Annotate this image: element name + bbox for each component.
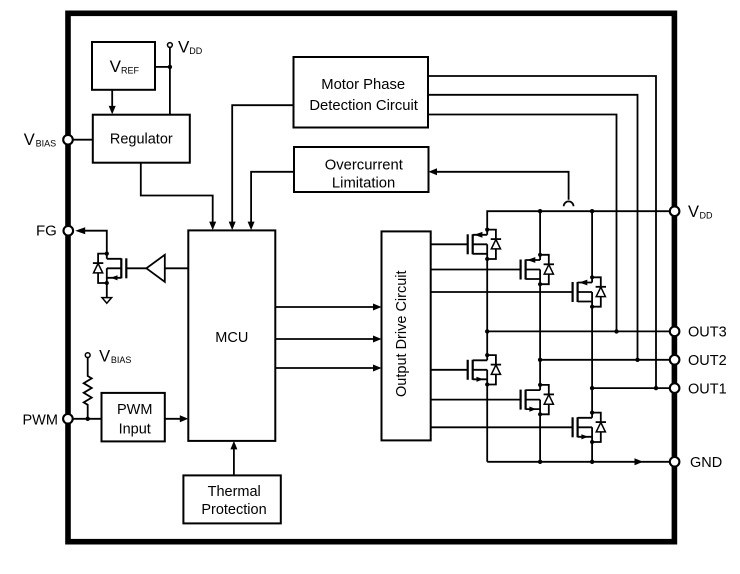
svg-text:MCU: MCU: [215, 330, 248, 346]
pin VDD: [670, 203, 713, 221]
svg-text:GND: GND: [690, 455, 722, 471]
wire gate drive to Q1: [431, 243, 468, 245]
pin VDD (internal stub): [168, 37, 203, 56]
node junction VREF/VDD: [168, 65, 172, 69]
wire PWM Input to MCU (arrow): [165, 415, 189, 422]
svg-text:Protection: Protection: [201, 502, 266, 518]
node junction Q3 drain on VDD rail: [590, 209, 594, 213]
block Overcurrent Limitation: [294, 147, 429, 192]
svg-text:V: V: [110, 57, 122, 76]
wire Motor Phase Detection feedback from OUT2: [428, 95, 638, 360]
node junction Q2 drain on VDD rail: [538, 209, 542, 213]
resistor R1 (PWM pull-up): [84, 358, 92, 420]
svg-text:V: V: [688, 203, 699, 221]
wire Motor Phase Detection feedback from OUT3: [428, 115, 617, 332]
svg-text:OUT3: OUT3: [688, 325, 727, 341]
svg-text:BIAS: BIAS: [111, 355, 132, 365]
chip boundary border: [68, 13, 674, 541]
pin PWM: [23, 412, 73, 428]
wire gate drive to Q3: [431, 291, 573, 293]
wire MCU to Output Drive Circuit bus 1 (arrow): [275, 304, 381, 311]
node junction OUT3 at detection feedback: [614, 329, 618, 333]
wire PWM pin to PWM Input: [73, 418, 102, 420]
node junction Q6 source on GND rail: [590, 460, 594, 464]
wire OUT1 net: [592, 387, 670, 389]
svg-text:Overcurrent: Overcurrent: [325, 157, 403, 173]
wire MCU to Output Drive Circuit bus 3 (arrow): [275, 365, 381, 372]
svg-text:V: V: [24, 131, 35, 149]
pin OUT1: [670, 381, 727, 397]
svg-text:Thermal: Thermal: [208, 484, 261, 500]
pin FG: [36, 223, 73, 240]
wire GND rail (arrow): [487, 458, 670, 465]
wire Q3 source to Q6 drain: [591, 307, 593, 413]
wire buffer to FG transistor gate: [126, 267, 146, 269]
svg-text:FG: FG: [36, 223, 57, 240]
wire Regulator to MCU (arrow): [141, 163, 216, 230]
pin GND: [670, 455, 722, 471]
buffer U1 (FG driver): [146, 255, 164, 282]
wire gate drive to Q4: [431, 369, 468, 371]
svg-text:Detection Circuit: Detection Circuit: [309, 98, 418, 114]
wire gate drive to Q2: [431, 269, 521, 271]
wire VDD rail sense to Overcurrent Limitation (arrow into box): [429, 168, 574, 206]
wire V_REF to Regulator (arrow): [109, 90, 116, 115]
pin OUT3: [670, 325, 727, 341]
svg-text:Motor Phase: Motor Phase: [321, 77, 405, 93]
transistor Q6 (low side 3): [573, 411, 606, 445]
svg-text:Regulator: Regulator: [110, 132, 173, 148]
node junction OUT3 at phase leg: [485, 329, 489, 333]
svg-text:PWM: PWM: [117, 402, 152, 418]
node junction OUT2 at detection feedback: [635, 358, 639, 362]
svg-text:DD: DD: [189, 46, 202, 56]
wire Q2 source to Q5 drain: [539, 284, 541, 385]
wire Q1 source to Q4 drain: [486, 259, 488, 355]
wire gate drive to Q5: [431, 399, 521, 401]
wire gate drive to Q6: [431, 426, 573, 428]
transistor Q5 (low side 2): [521, 383, 554, 417]
svg-text:OUT1: OUT1: [688, 381, 727, 397]
node junction PWM/resistor: [86, 417, 90, 421]
block Motor Phase Detection Circuit: [294, 57, 429, 128]
wire VDD rail: [487, 211, 670, 277]
wire VBIAS to Regulator: [73, 139, 93, 141]
block PWM Input: [102, 393, 165, 442]
svg-text:Input: Input: [119, 421, 151, 437]
wire Q4 source to GND rail: [486, 385, 488, 462]
svg-text:Limitation: Limitation: [332, 175, 395, 191]
transistor Q3 (high side 3): [573, 275, 606, 309]
wire VDD stub to Regulator: [169, 47, 171, 114]
svg-text:BIAS: BIAS: [36, 139, 57, 149]
block MCU: [188, 230, 275, 441]
wire Motor Phase Detection to MCU (arrow): [229, 105, 294, 230]
transistor Q2 (high side 2): [521, 253, 554, 287]
wire FG transistor drain to FG pin (arrow): [75, 227, 107, 253]
wire Overcurrent Limitation to MCU (arrow): [248, 172, 294, 230]
wire Thermal Protection to MCU (arrow): [230, 441, 237, 476]
wire MCU to Output Drive Circuit bus 2 (arrow): [275, 336, 381, 343]
wire Q6 source to GND rail: [591, 442, 593, 462]
block Output Drive Circuit: [382, 231, 431, 440]
node junction OUT1 at detection feedback: [654, 386, 658, 390]
pin VBIAS (pull-up stub): [85, 347, 131, 365]
wire Q5 source to GND rail: [539, 414, 541, 462]
svg-text:V: V: [99, 347, 110, 365]
wire MCU to FG buffer: [165, 267, 189, 269]
wire V_REF output to VDD wire: [155, 66, 170, 68]
wire OUT2 net: [540, 359, 670, 361]
node junction OUT1 at phase leg: [590, 386, 594, 390]
pin VBIAS: [24, 131, 73, 149]
node junction OUT2 at phase leg: [538, 358, 542, 362]
block V_REF: [92, 42, 155, 90]
svg-text:V: V: [178, 37, 190, 56]
ground: [102, 298, 112, 304]
svg-text:REF: REF: [121, 66, 140, 76]
svg-text:DD: DD: [700, 211, 713, 221]
wire Motor Phase Detection feedback from OUT1: [428, 76, 656, 388]
block Regulator: [93, 115, 190, 163]
transistor Q7 (FG open-drain, mirrored): [93, 251, 126, 285]
block Thermal Protection: [183, 475, 280, 523]
wire OUT3 net: [487, 330, 670, 332]
pin OUT2: [670, 353, 727, 369]
svg-text:PWM: PWM: [23, 412, 58, 428]
svg-text:OUT2: OUT2: [688, 353, 727, 369]
transistor Q4 (low side 1): [468, 353, 501, 387]
node junction Q5 source on GND rail: [538, 460, 542, 464]
transistor Q1 (high side 1): [468, 228, 501, 262]
svg-text:Output Drive Circuit: Output Drive Circuit: [394, 270, 410, 397]
wire FG transistor source to ground: [106, 283, 108, 297]
